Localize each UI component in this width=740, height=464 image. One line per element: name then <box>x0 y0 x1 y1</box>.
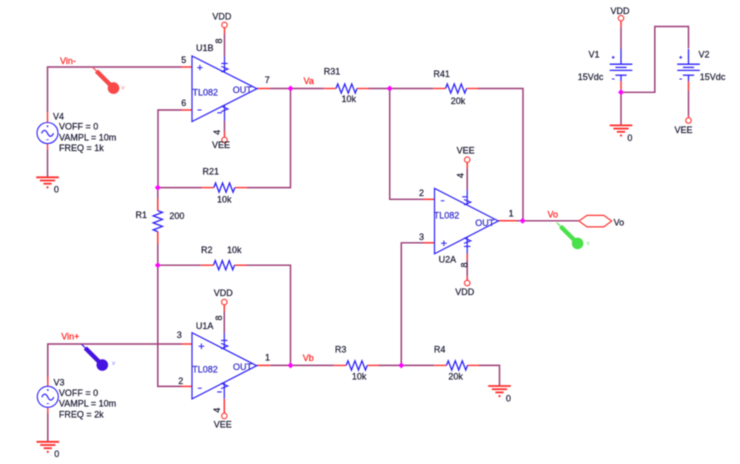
svg-text:TL082: TL082 <box>193 88 219 98</box>
svg-text:V4: V4 <box>53 112 64 122</box>
svg-text:VEE: VEE <box>214 420 232 430</box>
svg-text:VAMPL = 10m: VAMPL = 10m <box>59 399 116 409</box>
svg-text:U1A: U1A <box>196 321 214 331</box>
svg-text:R1: R1 <box>136 210 148 220</box>
svg-text:VOFF = 0: VOFF = 0 <box>59 388 98 398</box>
svg-text:TL082: TL082 <box>192 364 218 374</box>
svg-text:5: 5 <box>181 55 186 65</box>
svg-text:VDD: VDD <box>214 288 234 298</box>
svg-text:R4: R4 <box>434 345 446 355</box>
svg-text:Vb: Vb <box>303 353 314 363</box>
svg-text:VOFF = 0: VOFF = 0 <box>59 122 98 132</box>
svg-text:V3: V3 <box>54 377 65 387</box>
svg-text:7: 7 <box>265 75 270 85</box>
svg-text:Vin-: Vin- <box>60 56 76 66</box>
svg-text:VDD: VDD <box>611 6 631 16</box>
svg-text:R31: R31 <box>324 67 341 77</box>
svg-text:4: 4 <box>455 173 465 178</box>
svg-text:4: 4 <box>212 130 222 135</box>
svg-text:10k: 10k <box>217 195 232 205</box>
svg-text:R21: R21 <box>203 166 220 176</box>
svg-text:2: 2 <box>178 376 183 386</box>
svg-text:R3: R3 <box>335 344 347 354</box>
svg-text:VEE: VEE <box>212 140 230 150</box>
svg-text:U1B: U1B <box>196 43 214 53</box>
svg-text:R2: R2 <box>201 245 213 255</box>
svg-text:10k: 10k <box>352 372 367 382</box>
svg-text:VEE: VEE <box>457 146 475 156</box>
svg-text:20k: 20k <box>451 96 466 106</box>
svg-text:VEE: VEE <box>675 125 693 135</box>
svg-text:R41: R41 <box>433 69 450 79</box>
svg-text:200: 200 <box>169 211 184 221</box>
svg-text:3: 3 <box>177 330 182 340</box>
svg-text:v: v <box>121 85 125 92</box>
svg-text:v: v <box>112 360 116 367</box>
svg-text:8: 8 <box>214 38 224 43</box>
svg-text:Va: Va <box>304 76 314 86</box>
svg-text:FREQ = 2k: FREQ = 2k <box>59 409 104 419</box>
svg-text:4: 4 <box>212 408 222 413</box>
svg-text:V2: V2 <box>699 49 710 59</box>
svg-text:3: 3 <box>419 232 424 242</box>
svg-text:8: 8 <box>459 262 469 267</box>
svg-text:TL082: TL082 <box>434 211 460 221</box>
svg-text:2: 2 <box>419 188 424 198</box>
svg-text:15Vdc: 15Vdc <box>700 72 726 82</box>
svg-text:1: 1 <box>509 209 514 219</box>
svg-text:OUT: OUT <box>475 218 495 228</box>
svg-text:6: 6 <box>181 98 186 108</box>
svg-text:Vo: Vo <box>548 209 559 219</box>
svg-text:10k: 10k <box>342 94 357 104</box>
svg-text:VDD: VDD <box>455 287 475 297</box>
svg-text:Vin+: Vin+ <box>61 332 79 342</box>
svg-text:15Vdc: 15Vdc <box>578 72 604 82</box>
svg-text:OUT: OUT <box>233 85 253 95</box>
svg-text:1: 1 <box>265 352 270 362</box>
svg-text:U2A: U2A <box>439 255 457 265</box>
svg-text:VDD: VDD <box>212 11 232 21</box>
svg-text:20k: 20k <box>448 372 463 382</box>
svg-text:VAMPL = 10m: VAMPL = 10m <box>59 132 116 142</box>
svg-text:8: 8 <box>214 315 224 320</box>
svg-text:FREQ = 1k: FREQ = 1k <box>59 143 104 153</box>
svg-text:Vo: Vo <box>614 218 625 228</box>
svg-text:V1: V1 <box>589 49 600 59</box>
svg-text:v: v <box>587 240 591 247</box>
svg-text:10k: 10k <box>227 245 242 255</box>
svg-text:OUT: OUT <box>233 362 253 372</box>
